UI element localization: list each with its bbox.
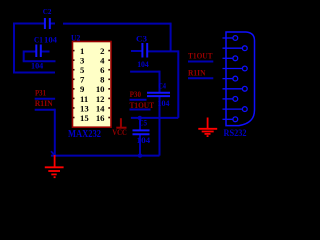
wire C4 lead — [159, 96, 161, 156]
wire C5 bottom lead — [139, 134, 141, 155]
svg-text:C3: C3 — [136, 34, 147, 43]
svg-text:104: 104 — [31, 61, 43, 70]
svg-text:3: 3 — [80, 56, 85, 66]
svg-text:13: 13 — [80, 103, 89, 113]
capacitor C3 — [142, 43, 147, 58]
pin numbers U2 (1-16) — [80, 46, 105, 123]
wire ground rail — [51, 155, 160, 157]
svg-text:104: 104 — [158, 99, 170, 108]
svg-text:1: 1 — [80, 46, 84, 56]
wire C4 top lead — [159, 71, 161, 93]
ground left — [45, 155, 64, 177]
svg-text:T1OUT: T1OUT — [130, 101, 155, 110]
net labels red — [35, 52, 213, 138]
pin 3 — [223, 57, 233, 59]
wire — [50, 23, 55, 25]
wire — [23, 60, 56, 62]
svg-text:C1: C1 — [34, 36, 43, 45]
svg-text:R1IN: R1IN — [35, 99, 53, 108]
capacitor C5 — [133, 130, 150, 134]
wire — [147, 50, 178, 52]
node junction C5 top — [138, 116, 142, 120]
svg-text:104: 104 — [137, 60, 149, 69]
wire C5 top lead — [139, 118, 141, 130]
pin 7 — [223, 98, 233, 100]
capacitor C1 — [36, 45, 41, 58]
svg-text:104: 104 — [44, 36, 57, 45]
pin nubs left — [73, 50, 75, 119]
pin 9 — [223, 118, 233, 120]
svg-text:14: 14 — [96, 103, 105, 113]
svg-text:P31: P31 — [35, 89, 46, 98]
wire R1IN left — [35, 109, 55, 111]
wire R1IN right — [188, 77, 213, 79]
capacitor C4 — [147, 93, 170, 96]
svg-text:P30: P30 — [130, 90, 141, 99]
node junction C5 bottom — [138, 153, 142, 157]
ground right — [198, 118, 217, 137]
svg-text:5: 5 — [80, 65, 85, 75]
wire — [130, 71, 159, 73]
wire — [13, 72, 55, 74]
svg-text:15: 15 — [80, 113, 89, 123]
wire — [41, 51, 50, 53]
svg-text:MAX232: MAX232 — [68, 129, 101, 140]
svg-text:7: 7 — [80, 75, 85, 85]
svg-text:2: 2 — [100, 46, 104, 56]
svg-text:U2: U2 — [71, 33, 80, 42]
svg-text:12: 12 — [96, 94, 105, 104]
pin 1 — [223, 37, 233, 39]
capacitor C2 — [45, 18, 50, 29]
svg-text:10: 10 — [96, 84, 105, 94]
labels blue — [31, 7, 247, 145]
svg-text:RS232: RS232 — [224, 128, 247, 138]
svg-text:6: 6 — [100, 65, 105, 75]
svg-text:C2: C2 — [43, 7, 52, 16]
svg-text:11: 11 — [80, 94, 88, 104]
pin 4 — [223, 68, 243, 70]
wire — [13, 23, 15, 74]
wire P31 — [35, 98, 55, 100]
wire P30 — [130, 99, 147, 101]
wire top — [63, 23, 171, 25]
wire junction diagonal — [51, 151, 55, 155]
svg-text:R1IN: R1IN — [188, 69, 206, 78]
connector RS232 DB9 outline — [226, 32, 255, 126]
svg-text:C4: C4 — [158, 81, 166, 90]
svg-text:16: 16 — [96, 113, 105, 123]
DB9 pins — [223, 36, 248, 122]
wire — [54, 109, 56, 156]
svg-text:C5: C5 — [139, 119, 147, 128]
pin 2 — [223, 47, 243, 49]
pin 5 — [223, 78, 233, 80]
pin 6 — [223, 88, 243, 90]
wire — [170, 23, 172, 52]
wire — [24, 51, 37, 53]
wire — [131, 50, 143, 52]
svg-text:T1OUT: T1OUT — [188, 52, 213, 61]
svg-text:VCC: VCC — [112, 127, 127, 137]
wire — [14, 23, 45, 25]
svg-text:104: 104 — [137, 136, 151, 145]
power VCC symbol — [116, 118, 126, 128]
svg-text:8: 8 — [100, 75, 105, 85]
wire — [177, 50, 179, 118]
IC U2 MAX232 body — [73, 42, 112, 128]
wire T1OUT right — [188, 61, 213, 63]
wire — [23, 51, 25, 62]
wire T1OUT mid — [130, 109, 151, 111]
pin 8 — [223, 108, 243, 110]
pin nubs right — [108, 50, 110, 119]
svg-text:9: 9 — [80, 84, 85, 94]
wire — [131, 117, 178, 119]
svg-text:4: 4 — [100, 56, 105, 66]
